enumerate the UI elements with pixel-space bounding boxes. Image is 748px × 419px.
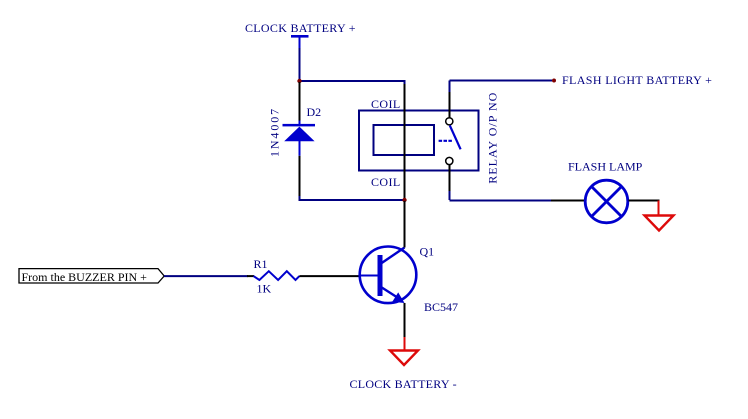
diode D2 symbol: [283, 124, 316, 156]
svg-text:COIL: COIL: [371, 97, 401, 111]
junction node at clock battery branch: [297, 79, 301, 83]
relay actuation dotted link: [439, 140, 453, 142]
svg-text:FLASH LIGHT BATTERY +: FLASH LIGHT BATTERY +: [562, 73, 712, 87]
wire coil lead vertical through relay: [404, 84, 406, 199]
wire flag to resistor: [164, 275, 254, 277]
transistor Q1 symbol: [360, 246, 417, 303]
wire emitter pin down to ground: [404, 303, 406, 350]
svg-text:1K: 1K: [257, 282, 272, 296]
node dot FLASH LIGHT BATTERY +: [552, 79, 556, 83]
wire from diode anode down to bottom rail: [299, 156, 301, 197]
wire collector pin up to coil junction: [404, 201, 406, 248]
wire relay NO contact down: [449, 165, 451, 201]
resistor R1 symbol: [254, 271, 300, 280]
wire (pin) from junction down to diode cathode: [299, 82, 301, 125]
svg-text:CLOCK BATTERY -: CLOCK BATTERY -: [350, 377, 457, 391]
svg-text:R1: R1: [254, 257, 268, 271]
svg-text:FLASH LAMP: FLASH LAMP: [568, 160, 643, 174]
wire relay output to flash lamp: [450, 200, 585, 202]
svg-text:1N4007: 1N4007: [268, 107, 282, 157]
relay coil box: [374, 125, 435, 155]
svg-text:Q1: Q1: [420, 245, 435, 259]
lamp symbol: [585, 180, 628, 223]
relay contact common (top circle): [446, 118, 453, 125]
wire junction to relay coil (top horizontal): [300, 81, 405, 84]
relay switch blade: [450, 126, 461, 150]
svg-text:COIL: COIL: [371, 175, 401, 189]
input flag From the BUZZER PIN +: [19, 269, 164, 284]
svg-text:RELAY O/P NO: RELAY O/P NO: [486, 92, 500, 184]
junction node at coil bottom: [402, 198, 406, 202]
wire lamp to ground: [629, 201, 660, 216]
svg-text:BC547: BC547: [424, 300, 458, 314]
svg-text:D2: D2: [307, 105, 322, 119]
relay contact NO (bottom circle): [446, 157, 453, 164]
wire resistor to transistor base: [299, 275, 360, 277]
svg-text:From the BUZZER PIN +: From the BUZZER PIN +: [22, 270, 148, 284]
ground (clock battery -): [390, 351, 418, 366]
ground (flash lamp return): [645, 216, 674, 231]
wire relay common up to flash light battery rail: [449, 81, 451, 118]
wire to FLASH LIGHT BATTERY +: [450, 80, 553, 82]
terminal bar CLOCK BATTERY +: [291, 35, 309, 38]
relay outer box: [359, 111, 479, 171]
wire from CLOCK BATTERY + terminal down to junction: [299, 37, 301, 81]
svg-text:CLOCK BATTERY +: CLOCK BATTERY +: [245, 21, 356, 35]
wire bottom rail from diode to coil junction: [300, 196, 404, 200]
